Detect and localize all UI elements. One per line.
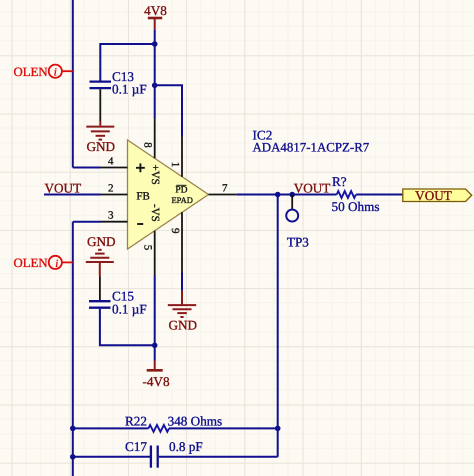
junction — [275, 426, 281, 432]
pin 5 — [154, 231, 156, 276]
port VOUT — [403, 188, 472, 203]
svg-text:4V8: 4V8 — [144, 3, 167, 18]
svg-text:2: 2 — [108, 182, 114, 194]
pin 4 — [101, 167, 128, 169]
wire: R22 feedback — [73, 427, 149, 429]
svg-text:R22: R22 — [125, 413, 147, 428]
wire: left rail upper (net OLEN) — [72, 0, 74, 168]
ground symbol (inverted, above C15) — [86, 250, 114, 277]
wire: pin 9 to ground — [181, 273, 183, 291]
wire: to pin 3 — [73, 221, 101, 223]
svg-text:VOUT: VOUT — [415, 188, 452, 203]
pin 3 — [101, 221, 128, 223]
wire: output net — [237, 194, 337, 196]
pin 7 (output) — [209, 194, 237, 196]
power port 4V8 — [144, 3, 167, 30]
svg-text:EPAD: EPAD — [171, 195, 192, 205]
svg-text:1: 1 — [169, 162, 181, 168]
svg-text:7: 7 — [222, 182, 228, 194]
svg-text:8: 8 — [142, 142, 154, 148]
wire: feedback rail down — [277, 195, 279, 457]
svg-text:4: 4 — [108, 156, 114, 168]
svg-text:-VS: -VS — [149, 204, 161, 222]
capacitor C15 — [89, 288, 147, 316]
power port -4V8 — [142, 361, 170, 389]
junction — [289, 192, 295, 198]
svg-text:50 Ohms: 50 Ohms — [332, 199, 380, 214]
wire: VOUT into pin 2 — [44, 194, 101, 196]
pin of C13 to ground — [99, 89, 101, 121]
op-amp symbol texts — [136, 163, 193, 224]
junction — [152, 41, 158, 47]
svg-text:OLEN: OLEN — [14, 65, 48, 79]
wire: pin 5 to -4V8 — [154, 276, 156, 361]
svg-text:3: 3 — [108, 210, 114, 222]
svg-text:GND: GND — [87, 139, 116, 154]
pin of C15 — [99, 277, 101, 301]
svg-text:GND: GND — [87, 234, 116, 249]
svg-text:+VS: +VS — [149, 165, 161, 185]
resistor R? 50 Ohms — [332, 174, 380, 214]
svg-text:0.1 µF: 0.1 µF — [112, 302, 147, 317]
ground symbol (below C13) — [86, 121, 114, 140]
pin 2 — [101, 194, 128, 196]
svg-text:i: i — [55, 258, 58, 270]
junction — [70, 454, 76, 460]
capacitor C17 — [125, 439, 203, 468]
op-amp U: ADA4817 triangle body — [128, 140, 209, 249]
wire: C15 to -4V8 rail — [100, 309, 155, 346]
svg-text:348 Ohms: 348 Ohms — [168, 413, 223, 428]
junction — [70, 426, 76, 432]
junction — [152, 83, 158, 89]
ground symbol (below pin 9) — [168, 291, 196, 317]
svg-text:FB: FB — [136, 191, 149, 203]
wire: top cap branch — [100, 44, 154, 81]
pin 8 — [154, 118, 156, 158]
svg-text:R?: R? — [332, 174, 347, 189]
svg-text:GND: GND — [169, 317, 198, 332]
wire: 4V8 rail down to pin 8 — [154, 30, 156, 118]
svg-text:VOUT: VOUT — [45, 180, 82, 195]
svg-text:C17: C17 — [125, 439, 147, 454]
svg-text:0.1 µF: 0.1 µF — [112, 82, 147, 97]
directive OLEN (lower) — [14, 256, 73, 270]
wire: C17 feedback — [73, 456, 150, 458]
svg-text:5: 5 — [142, 245, 154, 251]
wire: left rail lower (net OLEN) — [72, 222, 74, 476]
directive OLEN (upper) — [14, 65, 73, 79]
svg-text:-4V8: -4V8 — [142, 374, 170, 389]
wire: branch to pin 1 — [155, 85, 182, 136]
svg-text:i: i — [54, 67, 57, 79]
svg-text:OLEN: OLEN — [14, 256, 48, 270]
test point TP3 — [286, 195, 309, 250]
junction — [275, 192, 281, 198]
pin 9 — [181, 212, 183, 272]
svg-text:VOUT: VOUT — [294, 180, 331, 195]
svg-text:TP3: TP3 — [287, 234, 309, 249]
pin 1 — [181, 136, 183, 177]
capacitor C13 — [90, 69, 147, 97]
svg-text:0.8 pF: 0.8 pF — [169, 439, 203, 454]
svg-text:9: 9 — [169, 228, 181, 234]
wire: to pin 4 — [73, 167, 101, 169]
svg-text:ADA4817-1ACPZ-R7: ADA4817-1ACPZ-R7 — [253, 141, 370, 155]
resistor R22 348 Ohms — [125, 413, 222, 431]
junction — [152, 343, 158, 349]
